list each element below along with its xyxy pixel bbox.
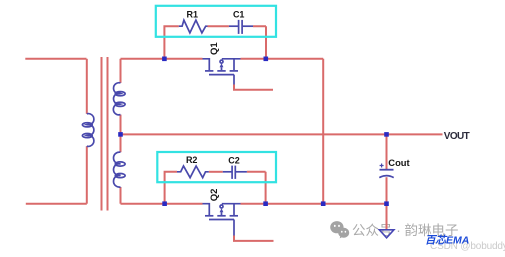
wire primary vertical bottom: [86, 146, 88, 204]
wire secondary bottom lead: [120, 187, 122, 204]
svg-text:R2: R2: [186, 155, 198, 165]
wire snubber2 mid: [209, 171, 223, 173]
svg-text:Q1: Q1: [209, 42, 220, 55]
resistor R1: [179, 20, 208, 33]
transformer primary winding L1: [82, 114, 93, 147]
wire top rail left of Q1: [121, 58, 203, 60]
node snubber1 right: [264, 57, 269, 62]
transformer secondary top winding: [113, 83, 125, 115]
capacitor C2: [223, 166, 247, 179]
wire snubber2 left riser: [165, 172, 177, 204]
wire snubber2 right: [247, 172, 266, 204]
node snubber1 left: [162, 57, 167, 62]
transistor Q2: [203, 204, 241, 236]
svg-text:Cout: Cout: [388, 157, 409, 168]
wire snubber1 left riser: [164, 26, 178, 59]
wire Q1 gate stub: [234, 85, 273, 90]
wire primary vertical top: [86, 59, 88, 114]
node Cout bottom: [384, 201, 389, 206]
transformer secondary bottom winding: [114, 152, 126, 187]
wire bottom-left primary return: [26, 203, 87, 205]
capacitor C1: [229, 20, 253, 34]
node snubber2 left: [162, 201, 167, 206]
wire Cout bottom: [386, 177, 388, 204]
wire Q1 drain drop: [322, 59, 324, 204]
wire secondary top lead: [120, 59, 122, 83]
resistor R2: [177, 166, 209, 178]
transformer core line left: [101, 57, 103, 211]
svg-text:百芯EMA: 百芯EMA: [425, 234, 469, 247]
node snubber2 right: [263, 201, 268, 206]
wire bottom rail right of Q2: [241, 203, 387, 205]
wire snubber1 right: [253, 26, 266, 59]
svg-text:C1: C1: [233, 10, 245, 20]
wire to ground: [386, 204, 388, 230]
wire bottom rail left of Q2: [121, 203, 203, 205]
svg-text:R1: R1: [187, 10, 199, 20]
wire Q2 gate stub: [234, 236, 274, 241]
node center tap: [118, 132, 123, 137]
wire VOUT rail: [121, 133, 443, 135]
snubber box 2: [157, 152, 276, 182]
node VOUT-Cout: [384, 132, 389, 137]
svg-text:C2: C2: [228, 155, 240, 165]
transformer core line right: [107, 57, 109, 211]
node Q1 drain to rail: [321, 201, 326, 206]
snubber box 1: [156, 6, 276, 37]
watermark wechat icon: [330, 221, 349, 238]
wire top rail right of Q1: [241, 58, 324, 60]
wire Cout top: [386, 134, 388, 169]
wire snubber1 mid: [208, 25, 229, 27]
transistor Q1: [203, 59, 241, 85]
svg-text:Q2: Q2: [209, 189, 220, 202]
capacitor Cout: [379, 164, 393, 178]
svg-text:VOUT: VOUT: [444, 131, 470, 142]
ground: [379, 230, 394, 238]
wire top-left primary lead: [25, 26, 442, 241]
wire secondary center (center tap): [120, 115, 122, 153]
